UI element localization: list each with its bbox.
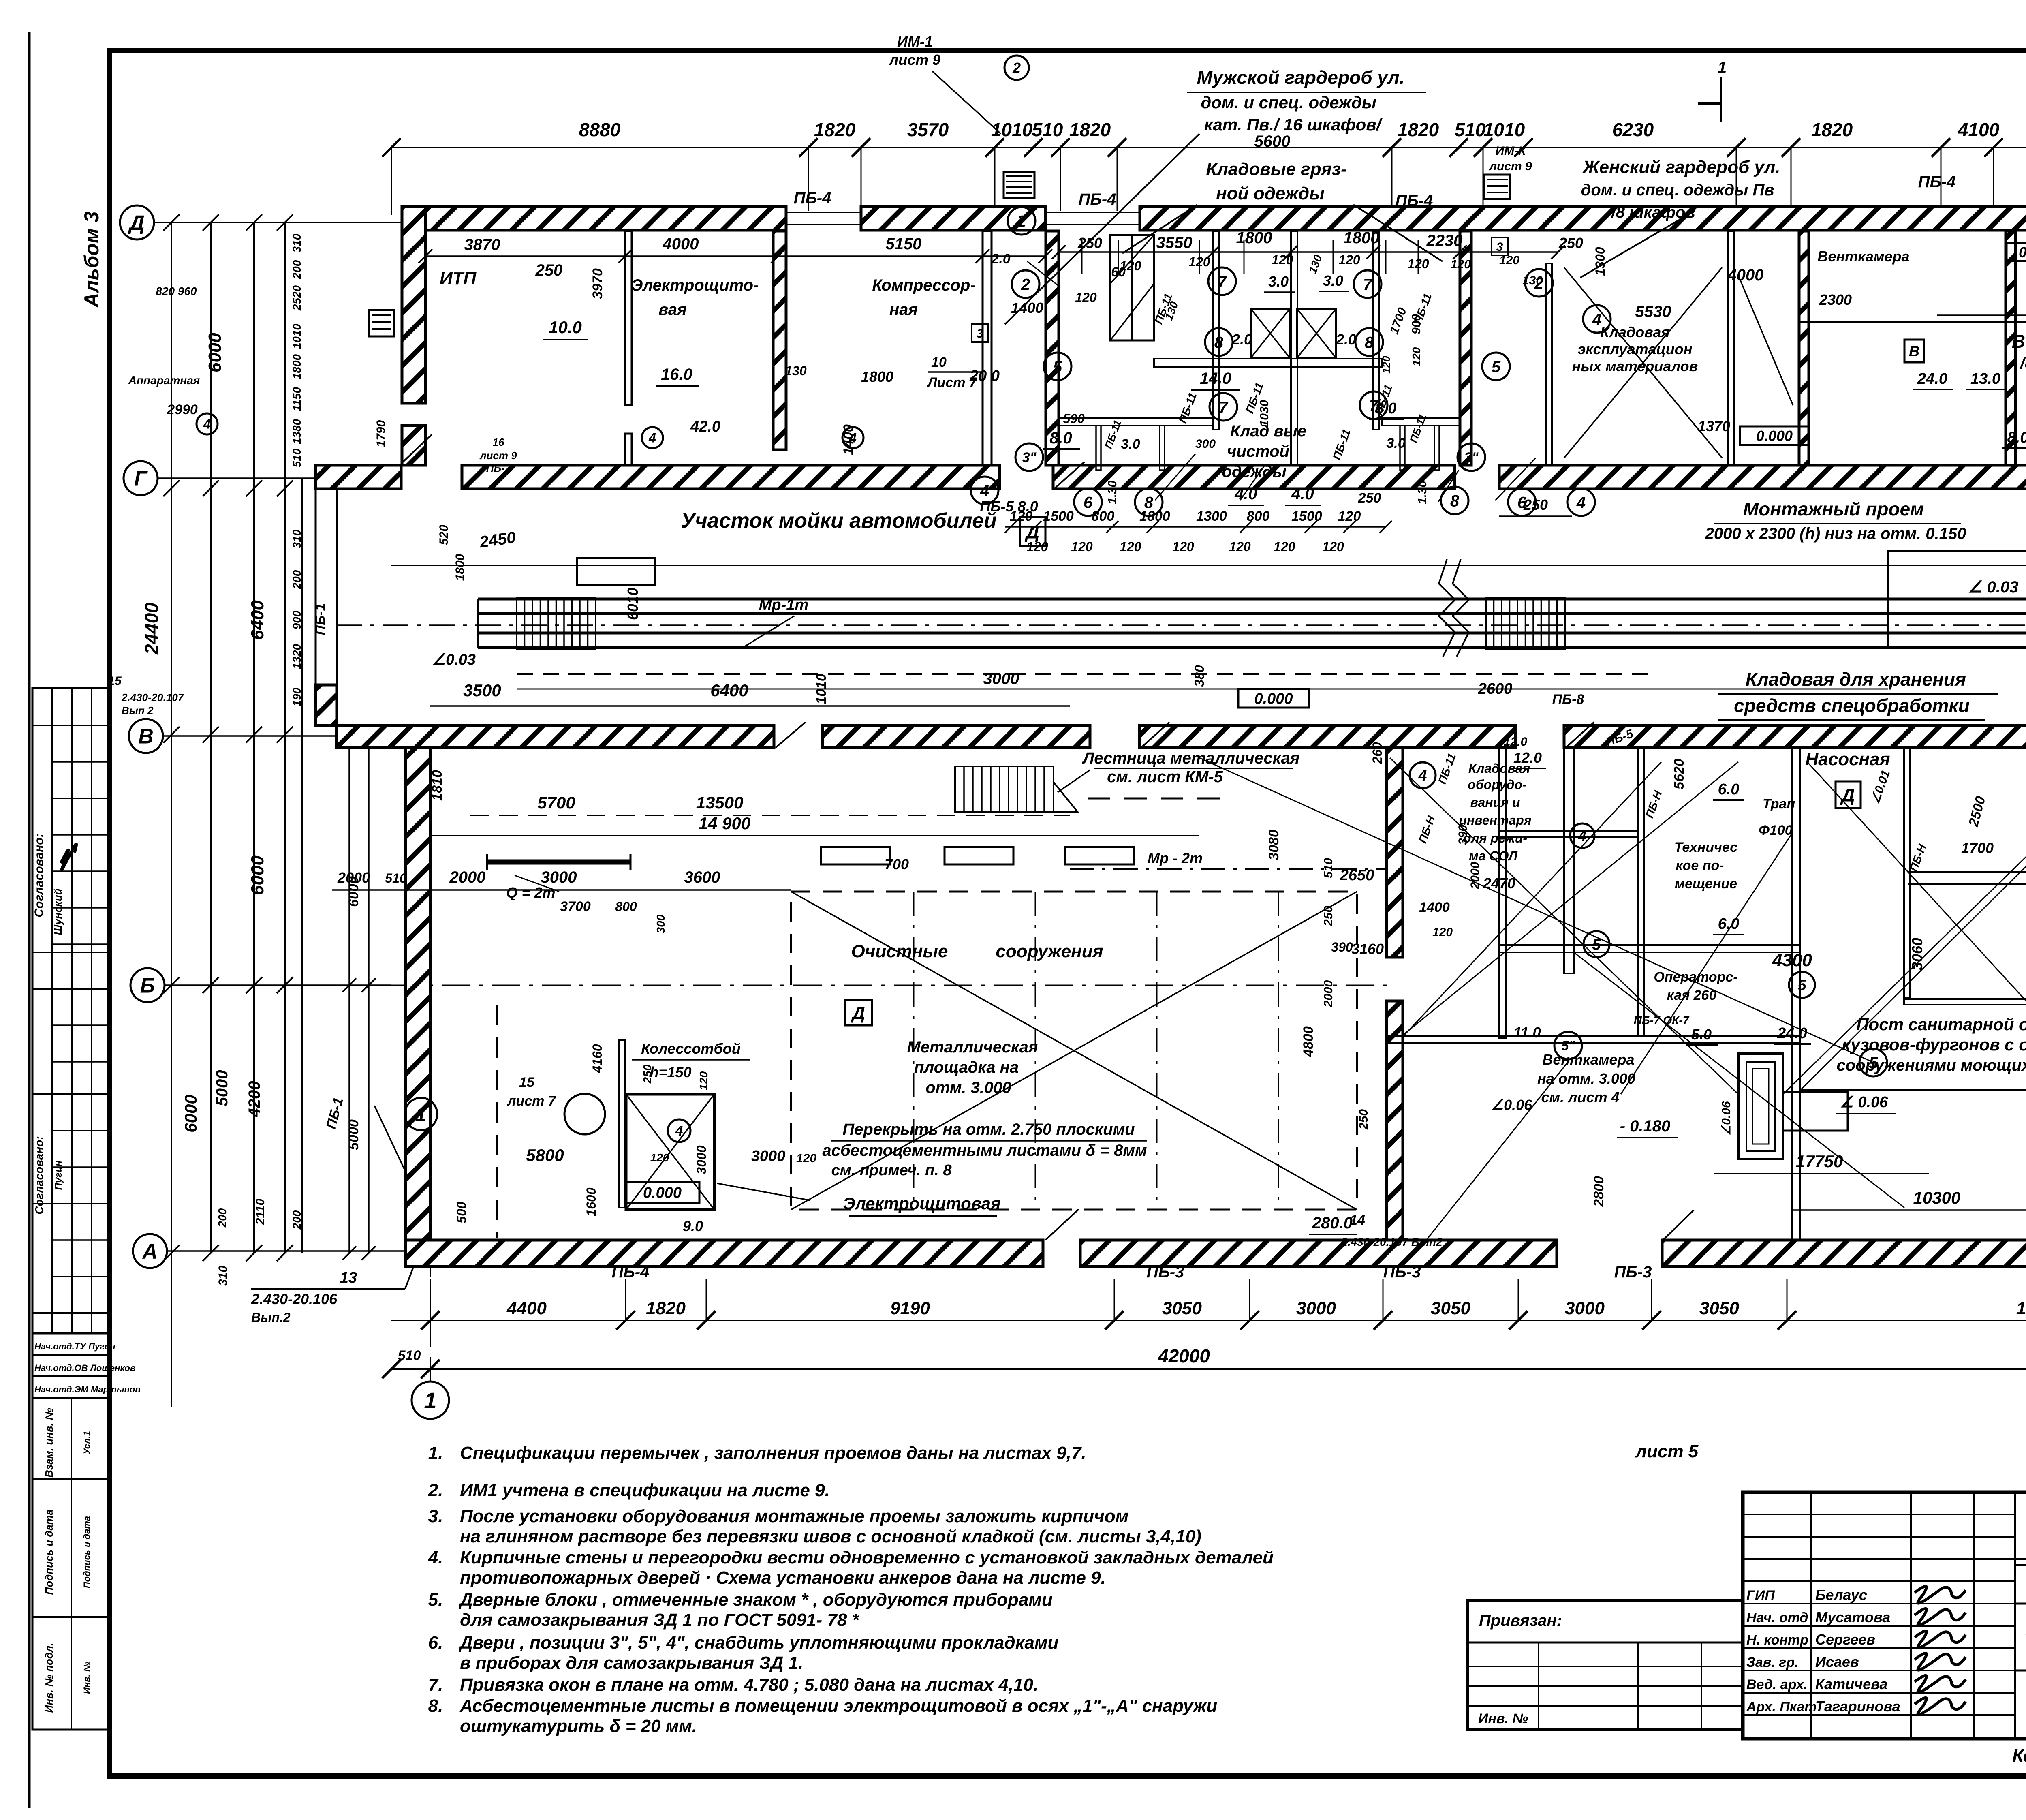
svg-text:510: 510 (385, 871, 407, 885)
svg-text:3050: 3050 (1431, 1298, 1470, 1318)
svg-text:120: 120 (1272, 252, 1293, 267)
svg-text:Тагаринова: Тагаринова (1815, 1698, 1900, 1715)
svg-text:Инв. № подл.: Инв. № подл. (43, 1643, 55, 1713)
svg-text:Двери , позиции 3", 5", 4",: Двери , позиции 3", 5", 4", снабдить упл… (458, 1633, 1059, 1653)
svg-text:200: 200 (291, 260, 303, 279)
svg-text:1300: 1300 (1196, 509, 1227, 524)
svg-text:1790: 1790 (374, 420, 388, 447)
svg-text:510: 510 (398, 1348, 421, 1363)
svg-text:820 960: 820 960 (156, 285, 197, 297)
svg-text:2110: 2110 (254, 1198, 267, 1225)
svg-text:2000: 2000 (1468, 862, 1482, 889)
svg-text:10300: 10300 (1913, 1188, 1961, 1207)
svg-text:1150: 1150 (291, 387, 303, 411)
svg-text:площадка на: площадка на (914, 1059, 1019, 1076)
svg-text:Зав. гр.: Зав. гр. (1746, 1655, 1799, 1670)
svg-text:120: 120 (796, 1152, 816, 1165)
svg-text:1820: 1820 (1069, 119, 1111, 140)
svg-text:для самозакрывания ЗД 1 п: для самозакрывания ЗД 1 по ГОСТ 5091- 78… (460, 1610, 860, 1630)
svg-text:8.0: 8.0 (2007, 429, 2026, 446)
svg-text:ных материалов: ных материалов (1572, 358, 1698, 374)
svg-text:3.0: 3.0 (1268, 273, 1289, 290)
svg-text:510: 510 (1455, 119, 1486, 140)
svg-text:Венткамера: Венткамера (1817, 248, 1909, 265)
svg-text:Венткамера: Венткамера (1542, 1051, 1634, 1068)
svg-text:24400: 24400 (141, 603, 162, 655)
svg-text:3000: 3000 (541, 868, 577, 886)
svg-text:300: 300 (1195, 437, 1216, 451)
svg-text:ПБ-1: ПБ-1 (313, 603, 328, 635)
svg-text:120: 120 (1499, 254, 1519, 267)
svg-text:Вед. арх.: Вед. арх. (1746, 1677, 1808, 1692)
svg-text:дом. и спец. одежды: дом. и спец. одежды (1201, 93, 1376, 112)
svg-text:3050: 3050 (1162, 1298, 1202, 1318)
svg-text:ПБ-5 8.0: ПБ-5 8.0 (980, 498, 1038, 515)
svg-text:Трап: Трап (1763, 796, 1795, 812)
svg-text:6400: 6400 (710, 681, 748, 700)
svg-text:сооружениями моющих растворов: сооружениями моющих растворов (1836, 1056, 2026, 1074)
svg-text:1030: 1030 (1258, 400, 1271, 427)
svg-text:3": 3" (1464, 450, 1479, 465)
svg-text:42.0: 42.0 (690, 418, 720, 435)
svg-text:1320: 1320 (291, 644, 303, 669)
svg-text:510: 510 (1032, 119, 1063, 140)
svg-text:4: 4 (675, 1123, 683, 1139)
svg-text:3600: 3600 (684, 868, 720, 886)
svg-text:Подпись и дата: Подпись и дата (43, 1510, 55, 1595)
svg-text:инвентаря: инвентаря (1459, 813, 1531, 828)
svg-text:Инв. №: Инв. № (82, 1662, 92, 1694)
svg-text:ной одежды: ной одежды (1216, 184, 1325, 203)
svg-text:0.000: 0.000 (643, 1185, 682, 1202)
svg-text:7.: 7. (428, 1675, 443, 1695)
svg-text:мещение: мещение (1675, 876, 1737, 892)
svg-text:Сергеев: Сергеев (1815, 1631, 1875, 1648)
svg-text:Исаев: Исаев (1815, 1653, 1859, 1670)
svg-text:15: 15 (108, 674, 122, 688)
svg-text:h=150: h=150 (650, 1064, 691, 1080)
svg-text:Ф100: Ф100 (1759, 823, 1792, 838)
svg-text:5620: 5620 (1671, 759, 1687, 789)
svg-text:см. лист КМ-5: см. лист КМ-5 (1107, 768, 1223, 786)
svg-text:590: 590 (1063, 411, 1085, 426)
svg-text:120: 120 (697, 1071, 710, 1090)
svg-text:1800: 1800 (1344, 229, 1380, 247)
svg-text:3000: 3000 (694, 1145, 709, 1174)
svg-text:1600: 1600 (584, 1187, 598, 1216)
svg-text:кузовов-фургонов с очистными: кузовов-фургонов с очистными (1842, 1035, 2026, 1054)
svg-text:ИМ1 учтена в спецификации: ИМ1 учтена в спецификации на листе 9. (460, 1480, 830, 1500)
svg-text:кое по-: кое по- (1676, 858, 1724, 873)
svg-text:120: 120 (1172, 539, 1194, 554)
svg-text:16.0: 16.0 (661, 366, 692, 383)
svg-text:1800: 1800 (1236, 229, 1272, 247)
svg-text:390: 390 (1456, 825, 1470, 845)
svg-text:ма СОЛ: ма СОЛ (1469, 849, 1518, 863)
svg-text:Вып.2: Вып.2 (251, 1310, 291, 1325)
svg-text:Операторс-: Операторс- (1654, 969, 1737, 985)
svg-text:Альбом 3: Альбом 3 (80, 211, 103, 308)
svg-text:4: 4 (1418, 768, 1427, 785)
svg-text:120: 120 (1338, 509, 1361, 524)
svg-text:- 0.180: - 0.180 (1620, 1117, 1671, 1135)
svg-text:4200: 4200 (246, 1081, 263, 1118)
svg-text:1.30: 1.30 (1416, 480, 1429, 504)
svg-text:ПБ-2: ПБ-2 (486, 462, 511, 474)
svg-text:Монтажный проем: Монтажный проем (1743, 498, 1924, 520)
svg-text:1010: 1010 (1483, 119, 1525, 140)
svg-text:380: 380 (1192, 665, 1207, 687)
svg-text:10.0: 10.0 (549, 318, 582, 337)
svg-text:3050: 3050 (1699, 1298, 1739, 1318)
svg-text:120: 120 (650, 1151, 669, 1164)
svg-text:3000: 3000 (1296, 1298, 1336, 1318)
svg-text:вания и: вания и (1470, 795, 1520, 810)
svg-text:ПБ-8: ПБ-8 (1552, 692, 1584, 707)
svg-text:Кладовые гряз-: Кладовые гряз- (1206, 159, 1346, 179)
svg-text:Пугин: Пугин (53, 1160, 64, 1190)
svg-text:5000: 5000 (346, 1119, 361, 1150)
svg-text:2.430-20.107: 2.430-20.107 (121, 691, 184, 704)
svg-text:Н. контр: Н. контр (1746, 1632, 1808, 1648)
svg-text:лист 9: лист 9 (479, 449, 517, 462)
svg-text:5: 5 (1797, 977, 1806, 994)
interior partitions lower right (1387, 748, 1403, 957)
svg-text:250: 250 (1357, 1109, 1370, 1130)
svg-text:для режи-: для режи- (1463, 831, 1527, 845)
svg-text:ИМ-К: ИМ-К (1496, 144, 1527, 158)
svg-text:/8 шкафов: /8 шкафов (1610, 203, 1695, 221)
svg-text:4: 4 (1578, 828, 1586, 844)
svg-text:5800: 5800 (526, 1146, 564, 1165)
svg-text:3000: 3000 (1565, 1298, 1605, 1318)
svg-text:310: 310 (216, 1266, 230, 1286)
svg-text:4: 4 (648, 431, 656, 445)
svg-text:лист 9: лист 9 (889, 51, 940, 68)
svg-text:3.0: 3.0 (1323, 272, 1343, 289)
svg-text:∠ 0.06: ∠ 0.06 (1840, 1094, 1888, 1111)
svg-text:Компрессор-: Компрессор- (872, 276, 975, 294)
svg-text:2: 2 (1012, 60, 1021, 76)
svg-text:250: 250 (1322, 906, 1335, 926)
svg-text:120: 120 (1322, 539, 1344, 554)
svg-text:4.0: 4.0 (1234, 485, 1257, 503)
svg-text:5150: 5150 (886, 235, 922, 253)
svg-text:Мужской гардероб ул.: Мужской гардероб ул. (1197, 67, 1405, 88)
svg-text:9190: 9190 (890, 1298, 930, 1318)
svg-text:Асбестоцементные листы в по: Асбестоцементные листы в помещении элект… (459, 1696, 1217, 1716)
svg-text:24.0: 24.0 (1777, 1025, 1807, 1042)
svg-text:4.0: 4.0 (1291, 485, 1314, 503)
svg-text:1: 1 (424, 1388, 436, 1413)
svg-text:120: 120 (1451, 258, 1471, 271)
svg-text:оборудо-: оборудо- (1468, 777, 1526, 792)
axis circles (120, 205, 154, 240)
svg-text:ПБ-4: ПБ-4 (1079, 190, 1116, 208)
exterior walls (402, 207, 786, 230)
svg-text:ПБ-7 ОК-7: ПБ-7 ОК-7 (1634, 1014, 1690, 1027)
svg-text:∠ 0.03: ∠ 0.03 (1968, 578, 2019, 596)
svg-text:13.0: 13.0 (1970, 370, 2000, 387)
svg-text:1370: 1370 (1698, 418, 1730, 434)
svg-text:Шунский: Шунский (52, 888, 64, 935)
svg-text:900: 900 (291, 610, 303, 629)
svg-text:3080: 3080 (1266, 830, 1282, 860)
svg-text:2: 2 (1021, 276, 1030, 293)
svg-text:Колессотбой: Колессотбой (641, 1040, 740, 1057)
svg-text:в приборах для самозакрыван: в приборах для самозакрывания ЗД 1. (460, 1653, 803, 1673)
svg-text:800: 800 (1247, 509, 1270, 524)
svg-text:14.0: 14.0 (1200, 370, 1231, 387)
svg-text:1800: 1800 (861, 368, 893, 385)
svg-text:кат. Пв./ 16 шкафов/: кат. Пв./ 16 шкафов/ (1204, 115, 1383, 134)
svg-text:120: 120 (1075, 290, 1097, 305)
svg-text:Д: Д (1840, 785, 1855, 806)
svg-text:250: 250 (535, 261, 563, 279)
svg-text:Насосная: Насосная (1805, 749, 1890, 769)
svg-text:ПБ-4: ПБ-4 (1396, 192, 1433, 210)
svg-text:8: 8 (1144, 494, 1154, 511)
svg-text:130: 130 (785, 364, 807, 378)
svg-text:10: 10 (931, 355, 947, 370)
svg-text:500: 500 (454, 1202, 469, 1223)
svg-text:6.0: 6.0 (1718, 915, 1740, 932)
svg-text:ИТП: ИТП (440, 269, 477, 289)
svg-text:Согласовано:: Согласовано: (33, 1136, 45, 1214)
svg-text:Пост санитарной обработки: Пост санитарной обработки (1856, 1015, 2026, 1034)
svg-text:Лестница металлическая: Лестница металлическая (1082, 749, 1300, 767)
svg-text:120: 120 (1274, 539, 1295, 554)
svg-text:ПБ-3: ПБ-3 (1147, 1263, 1184, 1281)
svg-text:1010: 1010 (291, 323, 303, 349)
svg-text:12.0: 12.0 (1513, 749, 1542, 766)
svg-text:Взам. инв. №: Взам. инв. № (43, 1408, 55, 1478)
svg-text:2.430-20.106: 2.430-20.106 (251, 1291, 338, 1307)
svg-text:Очистные: Очистные (851, 941, 948, 961)
svg-text:1: 1 (1718, 59, 1727, 77)
conveyor and corridor (391, 565, 2026, 566)
svg-text:2.0: 2.0 (1231, 331, 1252, 348)
svg-text:Нач. отд: Нач. отд (1746, 1610, 1808, 1625)
svg-text:190: 190 (291, 687, 303, 706)
svg-text:Катичева: Катичева (1815, 1676, 1887, 1692)
svg-text:Усл.1: Усл.1 (82, 1431, 92, 1454)
left dimension columns (171, 222, 172, 1407)
svg-text:8: 8 (1450, 492, 1460, 510)
svg-text:3.0: 3.0 (1386, 436, 1405, 451)
svg-text:на глиняном растворе без пе: на глиняном растворе без перевязки швов … (460, 1527, 1201, 1546)
svg-text:6000: 6000 (181, 1095, 200, 1132)
svg-text:120: 120 (1026, 539, 1048, 554)
svg-text:8.: 8. (428, 1696, 443, 1716)
svg-text:4: 4 (980, 482, 989, 500)
svg-text:Мр - 2т: Мр - 2т (1148, 850, 1203, 866)
top dimension row (391, 147, 2026, 148)
svg-text:2.0: 2.0 (1336, 331, 1356, 348)
svg-text:1.: 1. (428, 1443, 443, 1463)
svg-text:5: 5 (1492, 358, 1501, 376)
svg-text:Белаус: Белаус (1815, 1587, 1867, 1603)
svg-text:2990: 2990 (167, 402, 198, 417)
svg-text:противопожарных дверей · Схем: противопожарных дверей · Схема установки… (460, 1568, 1106, 1588)
svg-text:13500: 13500 (696, 793, 744, 812)
svg-text:120: 120 (1120, 539, 1141, 554)
svg-text:∠0.06: ∠0.06 (1491, 1097, 1532, 1113)
svg-text:3870: 3870 (464, 236, 500, 254)
svg-text:3060: 3060 (1909, 938, 1926, 970)
svg-text:ПБ-3: ПБ-3 (1614, 1263, 1652, 1281)
svg-text:42000: 42000 (1158, 1345, 1210, 1367)
svg-text:4100: 4100 (1958, 119, 2000, 140)
svg-text:6230: 6230 (1612, 119, 1654, 140)
svg-text:1380: 1380 (291, 419, 303, 444)
svg-text:260: 260 (1370, 742, 1385, 764)
lower hall (791, 892, 1357, 1210)
svg-text:Металлическая: Металлическая (907, 1038, 1038, 1056)
svg-text:16: 16 (493, 436, 504, 448)
svg-text:200: 200 (291, 1210, 303, 1230)
svg-text:8880: 8880 (579, 119, 621, 140)
svg-text:ПБ-4: ПБ-4 (612, 1263, 650, 1281)
svg-text:300: 300 (654, 914, 667, 933)
svg-text:4: 4 (1576, 494, 1586, 511)
svg-text:2470: 2470 (1483, 875, 1515, 892)
svg-text:3: 3 (977, 327, 983, 340)
svg-text:средств спецобработки: средств спецобработки (1734, 695, 1970, 716)
svg-text:390: 390 (1331, 940, 1353, 954)
svg-text:120: 120 (1410, 347, 1423, 366)
svg-text:ПБ-4: ПБ-4 (794, 189, 831, 207)
svg-text:Q = 2т: Q = 2т (506, 884, 555, 901)
svg-text:дом. и спец. одежды Пв: дом. и спец. одежды Пв (1581, 181, 1774, 199)
svg-text:Г: Г (134, 467, 148, 491)
svg-text:13: 13 (340, 1269, 357, 1286)
svg-text:1800: 1800 (291, 354, 303, 379)
svg-text:на отм. 3.000: на отм. 3.000 (1537, 1070, 1635, 1087)
svg-text:3700: 3700 (560, 899, 591, 914)
svg-text:Женский гардероб ул.: Женский гардероб ул. (1582, 157, 1780, 177)
svg-text:280.0: 280.0 (1312, 1214, 1353, 1232)
svg-text:4160: 4160 (590, 1044, 605, 1073)
svg-text:см. лист 4: см. лист 4 (1541, 1089, 1619, 1106)
svg-text:5.: 5. (428, 1590, 443, 1610)
svg-text:∠0.03: ∠0.03 (432, 651, 476, 668)
svg-text:2000: 2000 (449, 868, 486, 886)
svg-text:510: 510 (1322, 858, 1335, 878)
svg-text:6.: 6. (428, 1633, 443, 1653)
svg-text:Копировал: Коннова: Копировал: Коннова (2012, 1745, 2026, 1766)
svg-text:2520: 2520 (291, 285, 303, 311)
svg-text:1810: 1810 (430, 770, 445, 801)
interior partitions upper (625, 231, 632, 405)
svg-text:3160: 3160 (1351, 941, 1384, 957)
svg-text:8: 8 (1365, 334, 1374, 351)
svg-text:3500: 3500 (463, 681, 501, 700)
svg-text:ПБ-4: ПБ-4 (1918, 173, 1956, 191)
svg-text:7: 7 (1219, 398, 1229, 416)
svg-text:Привязан:: Привязан: (1479, 1612, 1562, 1630)
svg-text:2000: 2000 (337, 869, 370, 886)
svg-text:лист 5: лист 5 (1635, 1441, 1699, 1461)
svg-text:1500: 1500 (1043, 509, 1074, 524)
svg-text:200: 200 (291, 570, 303, 589)
svg-text:0.150: 0.150 (2019, 244, 2026, 261)
svg-text:17750: 17750 (1796, 1152, 1843, 1171)
svg-text:1700: 1700 (1961, 840, 1994, 856)
svg-text:ПБ-3: ПБ-3 (1383, 1263, 1421, 1281)
svg-text:800: 800 (615, 899, 637, 914)
svg-text:7: 7 (1369, 397, 1379, 415)
svg-text:1820: 1820 (1398, 119, 1439, 140)
svg-text:эксплуатацион: эксплуатацион (1577, 341, 1692, 357)
svg-text:14: 14 (1350, 1213, 1365, 1228)
svg-text:сооружения: сооружения (996, 941, 1103, 961)
svg-text:3570: 3570 (907, 119, 949, 140)
svg-text:250: 250 (1077, 235, 1102, 251)
svg-text:5000: 5000 (213, 1070, 231, 1106)
svg-text:6: 6 (1517, 494, 1527, 511)
svg-text:2000 х 2300 (h) низ на отм. 0.: 2000 х 2300 (h) низ на отм. 0.150 (1705, 525, 1966, 543)
svg-text:1400: 1400 (1011, 299, 1043, 316)
svg-text:12460: 12460 (2016, 1298, 2026, 1318)
svg-text:Электрощитовая: Электрощитовая (843, 1194, 1000, 1213)
frame (28, 32, 31, 1808)
svg-text:Перекрыть на отм. 2.750 плоски: Перекрыть на отм. 2.750 плоскими (842, 1121, 1135, 1138)
svg-text:8.0: 8.0 (1049, 429, 1072, 447)
svg-text:24.0: 24.0 (1917, 370, 1947, 387)
svg-text:Привязка окон в плане на о: Привязка окон в плане на отм. 4.780 ; 5.… (460, 1675, 1038, 1695)
svg-text:0.000: 0.000 (1254, 691, 1293, 708)
svg-text:120: 120 (1071, 539, 1093, 554)
svg-text:отм. 3.000: отм. 3.000 (925, 1079, 1011, 1097)
svg-text:4: 4 (203, 417, 211, 432)
svg-text:5600: 5600 (1254, 133, 1291, 150)
svg-text:8: 8 (1214, 334, 1224, 351)
svg-text:см. примеч. п. 8: см. примеч. п. 8 (831, 1162, 952, 1179)
title block (1743, 1492, 2026, 1739)
svg-text:1820: 1820 (1811, 119, 1853, 140)
svg-text:510: 510 (291, 448, 303, 467)
svg-text:2600: 2600 (1478, 680, 1513, 697)
svg-text:Венткамера: Венткамера (2012, 331, 2026, 352)
svg-text:7: 7 (1218, 273, 1227, 291)
svg-text:вая: вая (658, 301, 686, 319)
svg-text:6: 6 (1084, 494, 1093, 511)
svg-text:Подпись и дата: Подпись и дата (82, 1516, 92, 1588)
svg-text:В: В (138, 725, 154, 749)
svg-text:20 0: 20 0 (969, 368, 1000, 385)
svg-text:лист 7: лист 7 (506, 1093, 557, 1109)
svg-text:Электрощито-: Электрощито- (631, 276, 759, 294)
svg-text:310: 310 (291, 529, 303, 548)
svg-text:Нач.отд.ЭМ Мартынов: Нач.отд.ЭМ Мартынов (34, 1384, 141, 1394)
svg-text:12.0: 12.0 (1504, 735, 1528, 749)
svg-text:Мр-1т: Мр-1т (759, 597, 808, 614)
svg-text:Арх. Пкат: Арх. Пкат (1746, 1699, 1817, 1715)
svg-text:1400: 1400 (1419, 900, 1450, 915)
bottom dimension rows (391, 1320, 2026, 1321)
svg-text:2: 2 (1017, 212, 1026, 230)
svg-text:3": 3" (1022, 450, 1037, 465)
svg-text:2.: 2. (428, 1480, 443, 1500)
svg-text:4: 4 (849, 431, 857, 445)
svg-text:250: 250 (1358, 490, 1381, 506)
svg-text:800: 800 (1092, 509, 1115, 524)
svg-text:6.0: 6.0 (1718, 781, 1740, 798)
svg-text:6400: 6400 (248, 600, 267, 640)
svg-text:Дверные блоки , отмеченные з: Дверные блоки , отмеченные знаком * , об… (458, 1590, 1053, 1610)
svg-text:1010: 1010 (814, 674, 829, 704)
